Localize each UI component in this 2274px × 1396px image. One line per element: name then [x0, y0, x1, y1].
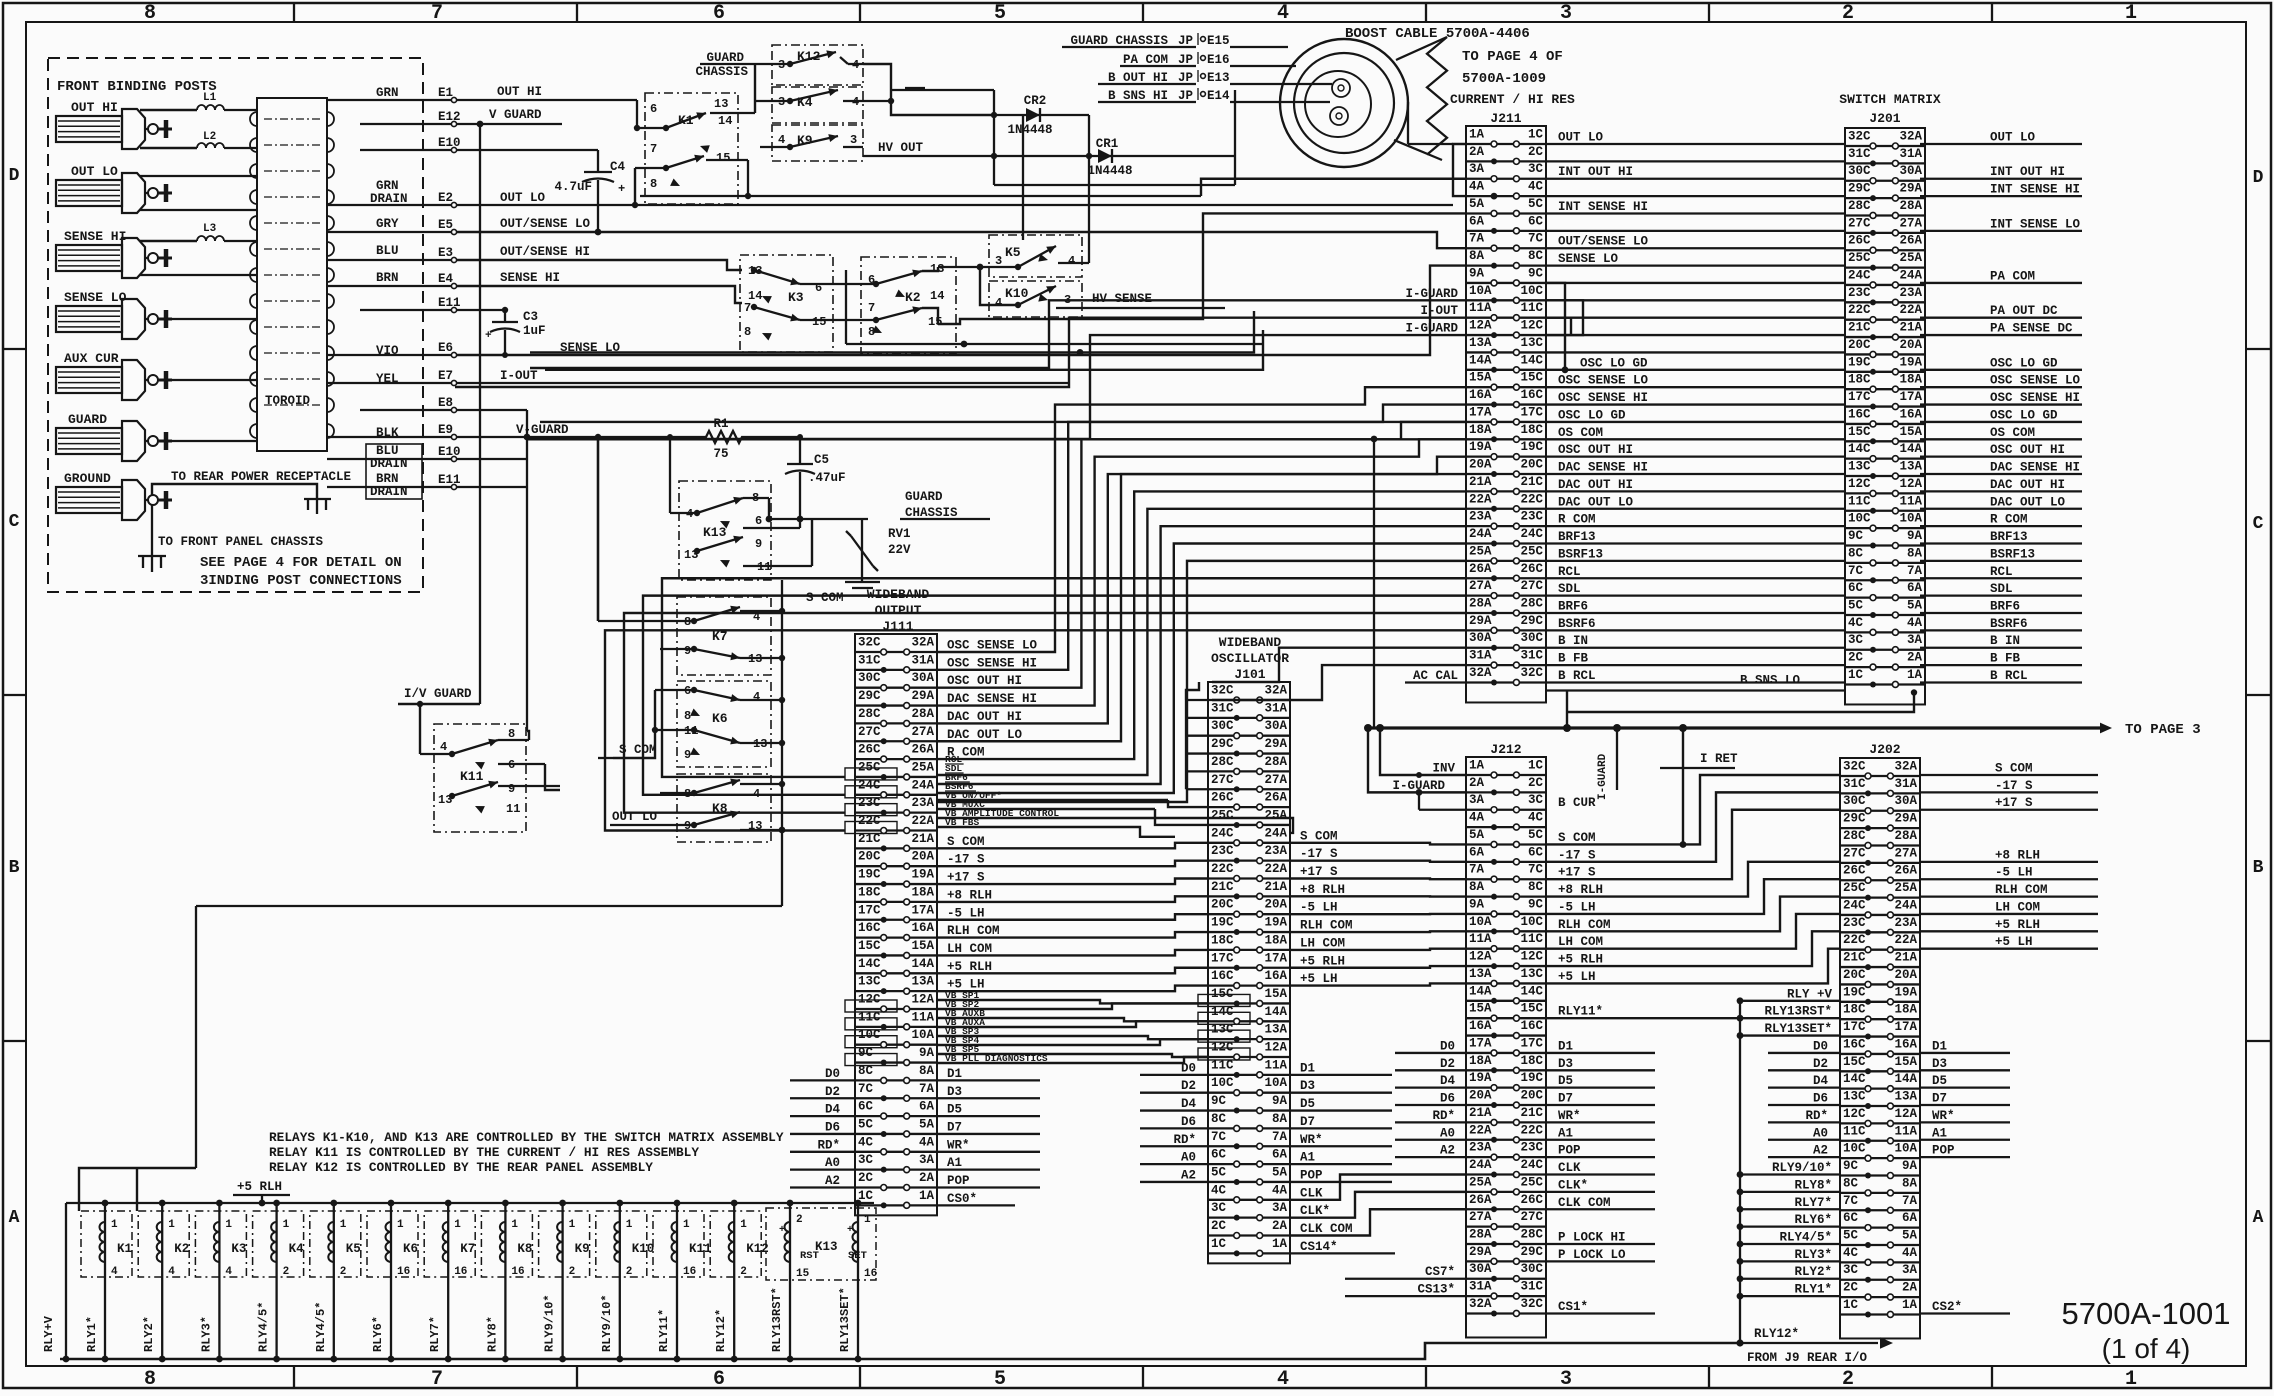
svg-text:OSC LO GD: OSC LO GD: [1990, 408, 2058, 422]
svg-text:11C: 11C: [1520, 932, 1543, 946]
svg-text:19A: 19A: [1469, 1071, 1492, 1085]
svg-text:B SNS LO: B SNS LO: [1740, 673, 1801, 687]
connector J211 pin rows: [1466, 128, 1546, 686]
svg-text:9C: 9C: [1211, 1094, 1227, 1108]
svg-text:B IN: B IN: [1558, 634, 1588, 648]
relay K11 box: [434, 724, 526, 832]
J111 left data stubs: [790, 1067, 1015, 1205]
svg-text:K9: K9: [575, 1242, 590, 1256]
relay K1 contacts: [635, 64, 755, 199]
svg-text:23A: 23A: [911, 796, 934, 810]
svg-text:16: 16: [683, 1266, 696, 1278]
svg-text:6: 6: [713, 2, 725, 25]
svg-text:15: 15: [716, 151, 730, 165]
svg-text:TO FRONT PANEL CHASSIS: TO FRONT PANEL CHASSIS: [158, 535, 324, 549]
svg-text:RLY13RST*: RLY13RST*: [1764, 1005, 1832, 1019]
svg-text:B RCL: B RCL: [1990, 669, 2028, 683]
svg-text:17A: 17A: [1264, 951, 1287, 965]
svg-text:D1: D1: [1932, 1039, 1947, 1053]
svg-text:19A: 19A: [1899, 355, 1922, 369]
svg-text:24C: 24C: [1211, 826, 1234, 840]
svg-text:11C: 11C: [1520, 301, 1543, 315]
svg-text:2A: 2A: [1907, 651, 1923, 665]
svg-text:-17 S: -17 S: [1300, 847, 1338, 861]
svg-text:11C: 11C: [1843, 1124, 1866, 1138]
svg-text:16: 16: [454, 1266, 467, 1278]
relay coil K10: [596, 1200, 655, 1363]
svg-text:I/V GUARD: I/V GUARD: [404, 687, 472, 701]
svg-text:9: 9: [508, 782, 515, 796]
svg-text:24A: 24A: [1899, 268, 1922, 282]
svg-text:20A: 20A: [1894, 968, 1917, 982]
svg-text:20C: 20C: [1211, 898, 1234, 912]
svg-text:21A: 21A: [1469, 475, 1492, 489]
svg-text:21C: 21C: [1520, 475, 1543, 489]
svg-text:RLY9/10*: RLY9/10*: [1772, 1161, 1832, 1175]
svg-text:12A: 12A: [1469, 319, 1492, 333]
svg-text:8: 8: [144, 1368, 156, 1391]
connector J111 pin rows: [855, 636, 937, 1209]
svg-text:8: 8: [684, 709, 691, 723]
svg-text:25A: 25A: [1899, 251, 1922, 265]
svg-text:16: 16: [864, 1268, 877, 1280]
svg-text:30A: 30A: [1469, 1262, 1492, 1276]
svg-text:9: 9: [684, 644, 691, 658]
svg-text:24A: 24A: [1894, 898, 1917, 912]
wire E9 V-GUARD: [457, 423, 670, 440]
svg-text:20C: 20C: [1848, 338, 1871, 352]
svg-text:C: C: [9, 512, 20, 532]
svg-text:K5: K5: [1005, 245, 1021, 260]
svg-text:32C: 32C: [858, 636, 881, 650]
svg-text:4.7uF: 4.7uF: [554, 180, 592, 194]
svg-text:9A: 9A: [1902, 1159, 1918, 1173]
wire E12 V GUARD: [457, 108, 562, 704]
svg-text:1: 1: [340, 1219, 347, 1231]
svg-text:D0: D0: [1813, 1039, 1828, 1053]
svg-text:19A: 19A: [1264, 916, 1287, 930]
svg-text:19C: 19C: [858, 868, 881, 882]
svg-text:B: B: [2253, 858, 2264, 878]
svg-text:16A: 16A: [1894, 1037, 1917, 1051]
svg-text:29A: 29A: [1469, 614, 1492, 628]
svg-text:11A: 11A: [911, 1010, 934, 1024]
svg-text:D1: D1: [947, 1067, 962, 1081]
svg-text:K11: K11: [460, 769, 484, 784]
svg-text:1N4448: 1N4448: [1087, 164, 1132, 178]
svg-text:14C: 14C: [1520, 984, 1543, 998]
svg-text:29C: 29C: [1848, 182, 1871, 196]
svg-text:GRY: GRY: [376, 217, 399, 231]
svg-text:29C: 29C: [1211, 737, 1234, 751]
relay K5 box: [989, 235, 1082, 277]
J111 crammed labels block 1: [845, 754, 1069, 834]
svg-text:26C: 26C: [1520, 562, 1543, 576]
svg-text:5: 5: [994, 2, 1006, 25]
svg-text:7: 7: [744, 301, 751, 315]
svg-text:3C: 3C: [1848, 633, 1864, 647]
svg-text:9A: 9A: [1907, 529, 1923, 543]
svg-text:+: +: [618, 182, 625, 196]
svg-text:6A: 6A: [1272, 1148, 1288, 1162]
svg-text:K7: K7: [460, 1242, 475, 1256]
svg-text:19C: 19C: [1211, 916, 1234, 930]
svg-text:E14: E14: [1207, 89, 1230, 103]
wire I-GUARD vertical to bus: [1371, 436, 1378, 728]
svg-text:K6: K6: [403, 1242, 418, 1256]
svg-text:23A: 23A: [1264, 844, 1287, 858]
svg-text:SDL: SDL: [1990, 582, 2013, 596]
svg-text:1N4448: 1N4448: [1007, 123, 1052, 137]
svg-text:30C: 30C: [1843, 794, 1866, 808]
svg-text:CURRENT / HI RES: CURRENT / HI RES: [1450, 92, 1575, 107]
svg-text:BLU: BLU: [376, 244, 399, 258]
varistor RV1: [846, 519, 911, 582]
svg-text:30C: 30C: [1211, 719, 1234, 733]
svg-text:GUARD: GUARD: [905, 490, 943, 504]
svg-text:P LOCK LO: P LOCK LO: [1558, 1248, 1626, 1262]
svg-text:RLY12*: RLY12*: [714, 1309, 728, 1352]
svg-text:31C: 31C: [1843, 777, 1866, 791]
wire B SNS LO vertical from bus: [1567, 690, 1617, 800]
svg-text:OSC OUT HI: OSC OUT HI: [1558, 443, 1633, 457]
svg-text:27C: 27C: [1843, 846, 1866, 860]
wire J211 10C-12C brackets: [1546, 300, 1583, 335]
svg-text:WR*: WR*: [1558, 1109, 1581, 1123]
svg-text:RLH COM: RLH COM: [1300, 919, 1353, 933]
svg-text:29C: 29C: [1520, 1245, 1543, 1259]
svg-text:10A: 10A: [911, 1028, 934, 1042]
svg-text:32C: 32C: [1211, 684, 1234, 698]
svg-text:5A: 5A: [1469, 197, 1485, 211]
svg-text:20C: 20C: [1520, 458, 1543, 472]
svg-text:D: D: [9, 166, 20, 186]
svg-text:I-GUARD: I-GUARD: [1405, 322, 1458, 336]
svg-text:4: 4: [1068, 254, 1075, 268]
svg-text:OSC OUT HI: OSC OUT HI: [1990, 443, 2065, 457]
svg-text:RLY8*: RLY8*: [1794, 1178, 1832, 1192]
svg-text:27C: 27C: [858, 725, 881, 739]
svg-text:5C: 5C: [1528, 197, 1544, 211]
svg-text:DAC SENSE HI: DAC SENSE HI: [1558, 461, 1648, 475]
svg-text:19C: 19C: [1848, 355, 1871, 369]
svg-text:OUT LO: OUT LO: [500, 191, 546, 205]
svg-text:+: +: [779, 1225, 785, 1236]
svg-text:+5 LH: +5 LH: [1300, 972, 1338, 986]
svg-text:1: 1: [111, 1219, 118, 1231]
wires rows 13-14 far west with up verticals: [530, 311, 1263, 370]
boost cable jumper rows: [1062, 33, 1332, 103]
svg-text:32C: 32C: [1520, 1297, 1543, 1311]
svg-text:OSC LO GD: OSC LO GD: [1990, 356, 2058, 370]
wire E4 SENSE HI: [457, 271, 742, 303]
svg-text:+8 RLH: +8 RLH: [1558, 883, 1603, 897]
svg-text:2: 2: [796, 1214, 803, 1226]
svg-text:17C: 17C: [858, 903, 881, 917]
svg-text:-5 LH: -5 LH: [947, 906, 985, 920]
svg-text:BRN: BRN: [376, 472, 399, 486]
svg-text:24C: 24C: [1848, 268, 1871, 282]
svg-text:16C: 16C: [1520, 388, 1543, 402]
svg-text:3: 3: [1560, 1368, 1572, 1391]
svg-text:3C: 3C: [1843, 1263, 1859, 1277]
connector J201 box: [1845, 111, 1925, 704]
svg-text:INT SENSE LO: INT SENSE LO: [1990, 217, 2081, 231]
svg-text:POP: POP: [947, 1174, 970, 1188]
svg-text:3C: 3C: [1528, 793, 1544, 807]
svg-text:6A: 6A: [1469, 214, 1485, 228]
svg-text:S COM: S COM: [1558, 831, 1596, 845]
svg-text:RD*: RD*: [1805, 1109, 1828, 1123]
wire E6 SENSE LO: [457, 266, 1466, 355]
svg-text:RLY6*: RLY6*: [1794, 1213, 1832, 1227]
svg-text:FRONT BINDING POSTS: FRONT BINDING POSTS: [57, 79, 217, 95]
svg-text:16C: 16C: [1848, 407, 1871, 421]
guard chassis node: [766, 490, 990, 522]
svg-text:3: 3: [1560, 2, 1572, 25]
svg-text:28A: 28A: [1469, 596, 1492, 610]
svg-text:26A: 26A: [1264, 791, 1287, 805]
svg-text:CLK*: CLK*: [1300, 1204, 1330, 1218]
svg-text:LH COM: LH COM: [1558, 935, 1603, 949]
svg-text:FROM J9 REAR I/O: FROM J9 REAR I/O: [1747, 1351, 1868, 1365]
ground post to front panel chassis: [138, 505, 324, 572]
svg-text:22A: 22A: [1894, 933, 1917, 947]
svg-text:22C: 22C: [1520, 492, 1543, 506]
svg-text:K7: K7: [712, 629, 728, 644]
svg-text:27A: 27A: [911, 725, 934, 739]
svg-text:A2: A2: [1813, 1144, 1828, 1158]
relay coil bracket K1-K3: [79, 1168, 196, 1211]
svg-text:10A: 10A: [1264, 1076, 1287, 1090]
svg-text:+: +: [847, 1225, 853, 1236]
binding post GROUND: [56, 471, 172, 520]
svg-text:8A: 8A: [1469, 880, 1485, 894]
svg-text:V-GUARD: V-GUARD: [516, 423, 569, 437]
svg-text:7C: 7C: [1528, 232, 1544, 246]
connector J212 pin rows: [1466, 759, 1546, 1317]
svg-text:15A: 15A: [1469, 1002, 1492, 1016]
svg-text:6A: 6A: [1469, 845, 1485, 859]
svg-text:28C: 28C: [1848, 199, 1871, 213]
svg-text:2C: 2C: [1848, 651, 1864, 665]
svg-text:22A: 22A: [1469, 1123, 1492, 1137]
relay K3 contacts: [744, 264, 846, 341]
svg-text:1C: 1C: [1848, 668, 1864, 682]
svg-text:14A: 14A: [911, 957, 934, 971]
inductor L3: [197, 223, 224, 241]
svg-text:16C: 16C: [1520, 1019, 1543, 1033]
svg-text:TO PAGE 3: TO PAGE 3: [2125, 722, 2201, 738]
svg-text:DAC OUT LO: DAC OUT LO: [947, 728, 1023, 742]
svg-text:5A: 5A: [1469, 828, 1485, 842]
svg-text:15A: 15A: [911, 939, 934, 953]
svg-text:3: 3: [850, 133, 857, 147]
heavy bus TO PAGE 3: [1364, 722, 2201, 738]
svg-text:D7: D7: [1558, 1092, 1573, 1106]
svg-text:17C: 17C: [1520, 1036, 1543, 1050]
relay coil bottom bus: [60, 1343, 1740, 1359]
svg-text:RLY2*: RLY2*: [142, 1316, 156, 1352]
svg-text:21A: 21A: [911, 832, 934, 846]
relay K6 box: [677, 681, 771, 767]
wire fan J111 to J211 rows 15-25 nested corners: [937, 387, 1466, 802]
svg-text:18A: 18A: [1469, 423, 1492, 437]
svg-text:E12: E12: [438, 110, 461, 124]
svg-text:GRN: GRN: [376, 179, 399, 193]
svg-text:28A: 28A: [911, 707, 934, 721]
svg-text:+5 LH: +5 LH: [1558, 970, 1596, 984]
relay coil K13 dual: [766, 1200, 877, 1363]
svg-text:HV SENSE: HV SENSE: [1092, 292, 1152, 306]
binding post OUT HI: [56, 100, 172, 149]
toroid: [250, 98, 334, 451]
svg-text:HV OUT: HV OUT: [878, 141, 924, 155]
svg-text:14A: 14A: [1899, 442, 1922, 456]
svg-text:A1: A1: [1558, 1126, 1573, 1140]
svg-text:32C: 32C: [1843, 760, 1866, 774]
svg-text:4C: 4C: [858, 1135, 874, 1149]
svg-text:29A: 29A: [1899, 182, 1922, 196]
svg-text:11A: 11A: [1264, 1058, 1287, 1072]
svg-text:8A: 8A: [1907, 546, 1923, 560]
svg-text:31A: 31A: [1264, 701, 1287, 715]
svg-text:14A: 14A: [1469, 353, 1492, 367]
svg-text:OSC LO GD: OSC LO GD: [1558, 408, 1626, 422]
svg-text:8: 8: [650, 177, 657, 191]
zone number strip bottom: [144, 1366, 2137, 1391]
svg-text:6: 6: [650, 102, 657, 116]
svg-text:OSC LO GD: OSC LO GD: [1580, 356, 1648, 370]
svg-text:2A: 2A: [1902, 1281, 1918, 1295]
svg-text:WR*: WR*: [947, 1138, 970, 1152]
relay K13 contacts: [670, 491, 812, 574]
svg-text:K4: K4: [289, 1242, 305, 1256]
svg-text:RCL: RCL: [1558, 565, 1581, 579]
svg-text:24C: 24C: [1520, 527, 1543, 541]
svg-text:10C: 10C: [1520, 284, 1543, 298]
wire J211 1A to 4A jog: [1408, 102, 1497, 200]
wire E10 drain stub: [457, 458, 527, 460]
svg-text:32A: 32A: [1894, 760, 1917, 774]
svg-text:14C: 14C: [1520, 353, 1543, 367]
svg-text:OUT/SENSE LO: OUT/SENSE LO: [1558, 235, 1649, 249]
wire OS COM / OSC LO GD long horizontals rows 17-18: [527, 422, 1466, 439]
svg-text:E15: E15: [1207, 34, 1230, 48]
svg-text:13: 13: [714, 97, 728, 111]
svg-text:RLY4/5*: RLY4/5*: [1779, 1230, 1832, 1244]
svg-text:E11: E11: [438, 296, 461, 310]
svg-text:L3: L3: [203, 223, 217, 235]
svg-text:27A: 27A: [1469, 1210, 1492, 1224]
svg-text:1C: 1C: [1211, 1237, 1227, 1251]
svg-text:11A: 11A: [1469, 301, 1492, 315]
svg-text:E5: E5: [438, 218, 453, 232]
svg-text:+5 RLH: +5 RLH: [947, 960, 992, 974]
svg-text:OUT LO: OUT LO: [71, 164, 118, 179]
svg-text:11: 11: [506, 802, 520, 816]
svg-text:1: 1: [569, 1219, 576, 1231]
label HV OUT: [863, 141, 994, 156]
svg-text:15C: 15C: [858, 939, 881, 953]
svg-text:2A: 2A: [1272, 1219, 1288, 1233]
svg-text:26C: 26C: [1520, 1193, 1543, 1207]
svg-text:E7: E7: [438, 369, 453, 383]
svg-text:10C: 10C: [1843, 1142, 1866, 1156]
svg-text:31A: 31A: [1469, 1280, 1492, 1294]
relay coil K6: [367, 1200, 418, 1363]
svg-text:J101: J101: [1234, 667, 1265, 682]
svg-text:1uF: 1uF: [523, 324, 546, 338]
relay K4 box: [772, 87, 863, 123]
svg-text:9A: 9A: [1469, 266, 1485, 280]
svg-text:23A: 23A: [1894, 916, 1917, 930]
relay K4 contact: [755, 88, 863, 109]
svg-text:2C: 2C: [858, 1171, 874, 1185]
svg-text:28C: 28C: [858, 707, 881, 721]
wire E7 I-OUT: [457, 369, 1069, 383]
svg-text:4: 4: [1277, 2, 1289, 25]
svg-text:25C: 25C: [1843, 881, 1866, 895]
svg-text:4: 4: [753, 690, 760, 704]
svg-text:RD*: RD*: [817, 1138, 840, 1152]
svg-text:6A: 6A: [1902, 1211, 1918, 1225]
svg-text:7: 7: [868, 301, 875, 315]
svg-text:RLY11*: RLY11*: [657, 1309, 671, 1352]
svg-text:L1: L1: [203, 92, 217, 104]
svg-text:K10: K10: [632, 1242, 655, 1256]
svg-text:C3: C3: [523, 310, 538, 324]
svg-text:RELAY K12 IS CONTROLLED BY THE: RELAY K12 IS CONTROLLED BY THE REAR PANE…: [269, 1160, 653, 1175]
svg-text:I RET: I RET: [1700, 752, 1738, 766]
svg-text:1: 1: [2125, 1368, 2137, 1391]
svg-text:16: 16: [511, 1266, 524, 1278]
svg-text:RELAYS K1-K10, AND K13 ARE CON: RELAYS K1-K10, AND K13 ARE CONTROLLED BY…: [269, 1130, 784, 1145]
svg-text:D2: D2: [1813, 1057, 1828, 1071]
connector J101 pin rows: [1208, 684, 1290, 1257]
svg-text:-5 LH: -5 LH: [1300, 901, 1338, 915]
relay K8 box: [677, 774, 771, 842]
svg-text:4A: 4A: [1469, 811, 1485, 825]
svg-text:OSCILLATOR: OSCILLATOR: [1211, 651, 1289, 666]
svg-text:7A: 7A: [1272, 1130, 1288, 1144]
wire K1 pin7 feed: [634, 168, 636, 205]
svg-text:D1: D1: [1558, 1039, 1573, 1053]
svg-text:1: 1: [2125, 2, 2137, 25]
svg-text:K8: K8: [517, 1242, 532, 1256]
svg-text:2: 2: [569, 1266, 576, 1278]
svg-text:+17 S: +17 S: [947, 871, 985, 885]
svg-text:R1: R1: [713, 417, 728, 431]
svg-text:2C: 2C: [1528, 145, 1544, 159]
svg-text:1: 1: [454, 1219, 461, 1231]
svg-text:1: 1: [168, 1219, 175, 1231]
svg-text:OUT HI: OUT HI: [71, 100, 118, 115]
svg-text:A2: A2: [1181, 1168, 1196, 1182]
OUT LO stub at K8: [610, 810, 677, 825]
svg-text:OUT/SENSE HI: OUT/SENSE HI: [500, 245, 590, 259]
svg-text:31C: 31C: [1520, 1280, 1543, 1294]
svg-text:23C: 23C: [1520, 510, 1543, 524]
svg-text:D4: D4: [825, 1103, 841, 1117]
svg-text:D7: D7: [1300, 1115, 1315, 1129]
svg-text:27C: 27C: [1520, 579, 1543, 593]
svg-text:9A: 9A: [1469, 897, 1485, 911]
svg-text:.47uF: .47uF: [808, 471, 846, 485]
wire fan J212 right to J202 left supply rows: [1546, 775, 1840, 983]
svg-text:POP: POP: [1932, 1144, 1955, 1158]
toroid to E terminal wires: [327, 100, 451, 487]
